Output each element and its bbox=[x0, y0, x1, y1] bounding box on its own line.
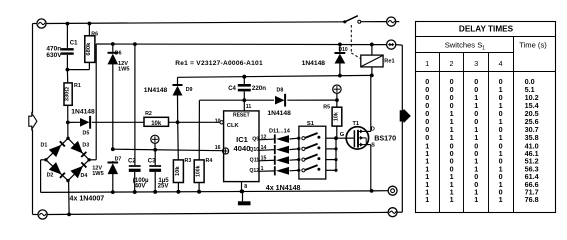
svg-text:C2: C2 bbox=[128, 159, 136, 165]
svg-text:1W5: 1W5 bbox=[118, 66, 130, 72]
svg-text:1W5: 1W5 bbox=[92, 171, 104, 177]
svg-text:D: D bbox=[371, 126, 375, 132]
svg-text:1N4148: 1N4148 bbox=[302, 60, 326, 67]
svg-text:76.8: 76.8 bbox=[525, 195, 539, 204]
svg-text:Re1 = V23127-A0006-A101: Re1 = V23127-A0006-A101 bbox=[175, 60, 263, 67]
svg-text:Q11: Q11 bbox=[250, 158, 260, 164]
svg-text:R2: R2 bbox=[145, 111, 152, 117]
svg-text:D2: D2 bbox=[47, 173, 54, 179]
svg-text:1: 1 bbox=[499, 195, 503, 204]
svg-text:4: 4 bbox=[499, 59, 503, 68]
svg-text:S: S bbox=[371, 143, 375, 149]
svg-text:R1: R1 bbox=[74, 83, 81, 89]
svg-text:D3: D3 bbox=[82, 143, 89, 149]
svg-text:1: 1 bbox=[474, 195, 478, 204]
svg-text:4040: 4040 bbox=[234, 144, 251, 153]
svg-text:D10: D10 bbox=[339, 47, 348, 53]
svg-text:11: 11 bbox=[246, 104, 252, 110]
svg-text:16: 16 bbox=[215, 145, 221, 151]
svg-text:D1: D1 bbox=[41, 143, 48, 149]
svg-text:Switches S: Switches S bbox=[445, 41, 483, 50]
svg-text:25V: 25V bbox=[158, 183, 170, 190]
svg-text:DELAY TIMES: DELAY TIMES bbox=[459, 25, 514, 34]
svg-text:1: 1 bbox=[425, 195, 429, 204]
svg-text:C4: C4 bbox=[228, 86, 236, 92]
svg-text:220n: 220n bbox=[252, 85, 266, 92]
svg-text:1N4148: 1N4148 bbox=[144, 87, 168, 94]
svg-text:2: 2 bbox=[450, 59, 454, 68]
svg-text:R3: R3 bbox=[185, 158, 192, 164]
svg-text:1: 1 bbox=[425, 59, 429, 68]
svg-text:40V: 40V bbox=[135, 183, 147, 190]
svg-text:Q10: Q10 bbox=[249, 147, 259, 153]
svg-text:3: 3 bbox=[474, 59, 478, 68]
svg-text:D9: D9 bbox=[186, 87, 193, 93]
svg-text:8: 8 bbox=[244, 184, 247, 190]
svg-text:C3: C3 bbox=[148, 159, 156, 165]
svg-text:680k: 680k bbox=[86, 42, 92, 56]
svg-text:10k: 10k bbox=[151, 121, 162, 127]
svg-text:1N4148: 1N4148 bbox=[267, 110, 291, 117]
svg-text:Time (s): Time (s) bbox=[519, 41, 547, 50]
svg-text:Re1: Re1 bbox=[384, 59, 394, 65]
svg-text:10k: 10k bbox=[334, 112, 340, 121]
svg-text:1: 1 bbox=[450, 195, 454, 204]
svg-text:10: 10 bbox=[215, 118, 221, 124]
svg-text:Q12: Q12 bbox=[249, 168, 259, 174]
svg-text:D11...14: D11...14 bbox=[269, 129, 291, 135]
svg-text:1N4148: 1N4148 bbox=[71, 108, 95, 115]
svg-text:1: 1 bbox=[482, 45, 485, 51]
svg-text:R5: R5 bbox=[323, 105, 330, 111]
svg-text:S1: S1 bbox=[307, 121, 315, 127]
svg-text:4x 1N4007: 4x 1N4007 bbox=[70, 194, 105, 202]
svg-text:100k: 100k bbox=[196, 165, 202, 177]
svg-text:D5: D5 bbox=[83, 130, 90, 136]
svg-text:R4: R4 bbox=[206, 158, 213, 164]
svg-text:330Ω: 330Ω bbox=[64, 87, 70, 102]
svg-text:C1: C1 bbox=[70, 40, 78, 46]
svg-text:630V: 630V bbox=[46, 52, 62, 59]
svg-text:D6: D6 bbox=[115, 50, 122, 56]
svg-text:R6: R6 bbox=[91, 32, 98, 38]
svg-text:D7: D7 bbox=[115, 156, 122, 162]
svg-text:RESET: RESET bbox=[233, 113, 250, 119]
svg-text:D8: D8 bbox=[277, 88, 284, 94]
svg-text:D4: D4 bbox=[81, 173, 88, 179]
svg-text:CLK: CLK bbox=[227, 123, 240, 129]
svg-text:10k: 10k bbox=[175, 166, 181, 176]
svg-text:BS170: BS170 bbox=[374, 133, 396, 142]
svg-text:G: G bbox=[340, 132, 345, 138]
svg-text:T1: T1 bbox=[353, 121, 360, 127]
svg-text:Q9: Q9 bbox=[252, 137, 259, 143]
